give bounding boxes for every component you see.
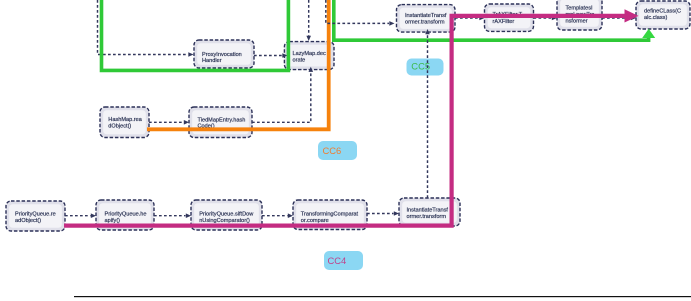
svg-text:rAXFilter: rAXFilter xyxy=(493,19,515,25)
wire dashed TrAXFilter to TemplatesImpl xyxy=(534,16,558,21)
box PriorityQueue.heapify() xyxy=(96,200,154,230)
svg-text:TemplatesI: TemplatesI xyxy=(566,6,593,12)
box TemplatesImpl.newTransformer xyxy=(557,0,602,30)
svg-text:TiedMapEntry.hash: TiedMapEntry.hash xyxy=(198,117,246,123)
svg-text:HashMap.rea: HashMap.rea xyxy=(108,117,142,123)
svg-text:nsformer: nsformer xyxy=(566,19,588,25)
svg-text:CC6: CC6 xyxy=(323,145,342,156)
box PriorityQueue.readObject() xyxy=(6,201,65,231)
box PriorityQueue.siftDownUsingComparator() xyxy=(191,200,262,230)
wire dashed ProxyInvocationHandler to LazyMap.decorate xyxy=(254,53,288,58)
svg-text:apify(): apify() xyxy=(105,218,121,224)
box defineCLass(Calc.class) xyxy=(636,1,690,29)
svg-text:CC4: CC4 xyxy=(328,255,347,266)
label CC4 xyxy=(324,251,363,270)
wire dashed PriorityQueue.heapify to PriorityQueue.siftDownUsingComparator xyxy=(154,213,191,218)
svg-text:ormer.transform: ormer.transform xyxy=(407,214,447,220)
box TiedMapEntry.hashCode() xyxy=(189,107,252,138)
svg-text:PriorityQueue.siftDow: PriorityQueue.siftDow xyxy=(199,211,254,217)
svg-text:dObject(): dObject() xyxy=(108,124,131,130)
svg-text:TransformingComparat: TransformingComparat xyxy=(301,211,359,217)
wire green CC5 chain left U segment xyxy=(102,0,289,70)
box TransformingComparator.compare xyxy=(293,200,367,230)
svg-text:adObject(): adObject() xyxy=(15,218,41,224)
box InstantiateTransformer.transform (top) xyxy=(397,5,456,32)
label CC5 xyxy=(407,59,444,76)
wire orange CC6 chain: LazyMap down and left to HashMap xyxy=(147,0,329,129)
wire dashed TiedMapEntry.hashCode to LazyMap.decorate bottom xyxy=(252,67,313,123)
wire dashed InstantiateTransformer(bottom) up to InstantiateTransformer(top) xyxy=(425,29,430,198)
svg-text:defineCLass(C: defineCLass(C xyxy=(644,8,681,14)
wire green CC5 chain right segment to defineCLass xyxy=(334,0,655,40)
label CC6 xyxy=(318,141,357,160)
svg-text:InstantiateTransf: InstantiateTransf xyxy=(405,13,447,19)
svg-text:alc.class): alc.class) xyxy=(644,15,667,21)
wire dashed LazyMap area to InstantiateTransformer (top) xyxy=(326,0,395,26)
wire pink CC4 chain: PriorityQueue along bottom, up, into defineCLass xyxy=(64,9,639,225)
wire dashed TemplatesImpl to defineCLass xyxy=(602,16,636,21)
svg-text:nUsingComparator(): nUsingComparator() xyxy=(199,218,250,224)
svg-text:or.compare: or.compare xyxy=(301,218,329,224)
svg-text:PriorityQueue.he: PriorityQueue.he xyxy=(105,211,147,217)
box HashMap.readObject() xyxy=(100,107,149,138)
wire dashed into ProxyInvocationHandler (from top left) xyxy=(98,0,194,57)
svg-text:orate: orate xyxy=(293,57,306,63)
box LazyMap.decorate xyxy=(284,42,334,70)
wire dashed into LazyMap.decorate top (from above) xyxy=(306,0,311,41)
wire dashed PriorityQueue.readObject to PriorityQueue.heapify xyxy=(65,213,96,218)
box InstantiateTransformer.transform (bottom) xyxy=(399,198,460,226)
box ProxyInvocationHandler xyxy=(194,40,254,68)
svg-text:InstantiateTransf: InstantiateTransf xyxy=(407,207,449,213)
svg-text:LazyMap.dec: LazyMap.dec xyxy=(293,51,326,57)
svg-text:Handler: Handler xyxy=(202,58,222,64)
box TrAXFilter.TrAXFilter xyxy=(485,4,534,31)
wire dashed TransformingComparator to InstantiateTransformer(bottom) xyxy=(367,211,399,216)
svg-text:ProxyInvocation: ProxyInvocation xyxy=(202,52,242,58)
bottom border line xyxy=(74,296,691,297)
wire dashed HashMap.readObject to TiedMapEntry.hashCode xyxy=(149,120,189,125)
wire dashed PriorityQueue.siftDownUsingComparator to TransformingComparator xyxy=(262,213,293,218)
svg-text:ormer.transform: ormer.transform xyxy=(405,20,445,26)
svg-text:PriorityQueue.re: PriorityQueue.re xyxy=(15,211,56,217)
wire dashed InstantiateTransformer(top) to TrAXFilter xyxy=(455,16,485,21)
